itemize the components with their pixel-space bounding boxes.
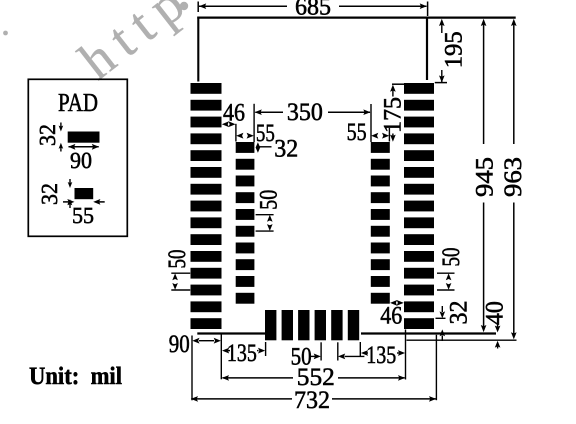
right inner pad column (10 pads) — [371, 142, 390, 304]
dimension 46 (left gap) — [222, 100, 245, 127]
PAD legend box frame — [28, 79, 127, 236]
dimension 55 (left inner pad width) — [236, 120, 275, 147]
svg-text:350: 350 — [287, 99, 323, 126]
dimension 50 (left outer pad pitch) — [164, 250, 191, 291]
svg-text:46: 46 — [380, 302, 402, 329]
dimension 50 (bottom pad pitch) — [291, 342, 365, 370]
dimension 40 (bottom offset) — [481, 301, 508, 348]
legend pad symbol 1 (90x32) — [68, 132, 100, 143]
dimension 32 (right pad height) — [436, 301, 473, 342]
dimension 963 (far right height) — [500, 19, 527, 340]
left outer pad column (15 pads) — [191, 83, 222, 329]
dimension 55 (right inner pad width) — [347, 119, 390, 146]
svg-text:685: 685 — [295, 0, 331, 21]
dimension 945 (right height) — [472, 19, 499, 332]
dimension 50 (left inner pad pitch) — [255, 190, 282, 231]
svg-text:135: 135 — [366, 342, 396, 369]
pad bottom reference line — [407, 339, 517, 341]
svg-text:175: 175 — [380, 97, 407, 133]
module outline bottom edge left segment — [197, 332, 265, 334]
dimension 50 (right outer pad pitch) — [437, 248, 465, 291]
module outline top edge — [197, 17, 515, 19]
right outer pad column (15 pads) — [404, 83, 434, 329]
svg-text:55: 55 — [256, 120, 275, 147]
svg-text:40: 40 — [481, 301, 508, 325]
left inner pad column (10 pads) — [236, 142, 255, 304]
module outline bottom edge right segment — [361, 332, 496, 334]
svg-text:945: 945 — [472, 157, 499, 197]
dimension 350 (inner span) — [254, 99, 371, 142]
dimension 32 (left inner pad height) — [256, 136, 299, 163]
watermark http. — [3, 0, 203, 91]
svg-text:963: 963 — [500, 157, 527, 197]
legend symbol1 height arrows — [59, 123, 64, 152]
dimension 685 (top width) — [198, 0, 427, 21]
unit note — [29, 363, 122, 390]
dimension 732 — [191, 335, 437, 414]
module outline right edge — [426, 17, 428, 80]
dimension 46 (right gap) — [380, 300, 404, 329]
svg-text:55: 55 — [347, 119, 367, 146]
svg-text:90: 90 — [169, 331, 190, 358]
svg-text:50: 50 — [438, 248, 465, 267]
legend symbol2 width dim 55 — [63, 199, 105, 228]
svg-text:50: 50 — [255, 190, 282, 210]
dimension 552 — [222, 330, 406, 391]
svg-text:32: 32 — [274, 136, 298, 163]
svg-text:732: 732 — [294, 387, 330, 414]
module outline left edge — [197, 17, 199, 82]
dimension 195 (top right) — [435, 19, 468, 83]
legend symbol2 height label 32 — [37, 183, 62, 205]
bottom pad row (6 pads) — [265, 310, 359, 340]
svg-text:PAD: PAD — [58, 88, 98, 117]
dimension 175 (right pad offset) — [380, 84, 407, 142]
svg-text:55: 55 — [72, 203, 94, 228]
svg-text:Unit: mil: Unit: mil — [29, 363, 122, 390]
dimension 135 left — [222, 340, 266, 367]
svg-text:195: 195 — [441, 31, 468, 68]
svg-text:32: 32 — [446, 301, 473, 325]
legend symbol1 height label 32 — [35, 124, 60, 146]
svg-text:90: 90 — [70, 148, 92, 173]
PAD legend title — [58, 88, 98, 117]
svg-text:46: 46 — [223, 100, 245, 127]
svg-text:32: 32 — [37, 183, 62, 205]
svg-text:32: 32 — [35, 124, 60, 146]
dimension 90 (outer pad width) — [169, 331, 222, 400]
legend symbol1 width dim 90 — [68, 144, 99, 173]
svg-text:50: 50 — [164, 250, 191, 269]
svg-text:135: 135 — [227, 340, 257, 367]
legend pad symbol 2 (55x32) — [75, 188, 94, 199]
dimension 135 right — [360, 342, 405, 369]
legend symbol2 height arrows — [68, 179, 73, 208]
